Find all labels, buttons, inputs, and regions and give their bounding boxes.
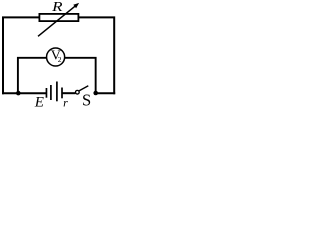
resistor R box (39, 14, 78, 21)
svg-text:r: r (63, 96, 68, 108)
battery plate 4 short (61, 88, 63, 99)
wire outer loop: left side, top, right side (3, 17, 114, 94)
battery plate 1 short (45, 88, 47, 98)
switch contact circle (76, 90, 80, 94)
svg-text:R: R (51, 0, 63, 15)
battery plate 2 long (50, 85, 52, 100)
wire bottom left segment (2, 92, 46, 94)
battery plate 3 long (56, 82, 58, 102)
switch blade (79, 86, 88, 91)
svg-text:E: E (34, 94, 44, 108)
resistor R arrow head (73, 3, 79, 8)
wire bottom right segment (96, 92, 116, 94)
node junction dot right (93, 91, 98, 96)
wire voltmeter branch left (18, 58, 47, 93)
resistor R arrow shaft (38, 6, 76, 37)
svg-text:S: S (82, 91, 91, 108)
svg-text:2: 2 (58, 55, 62, 64)
wire voltmeter branch right (65, 58, 96, 93)
wire bottom middle segment (62, 92, 75, 94)
node junction dot left (16, 91, 21, 96)
voltmeter circle (47, 48, 65, 66)
